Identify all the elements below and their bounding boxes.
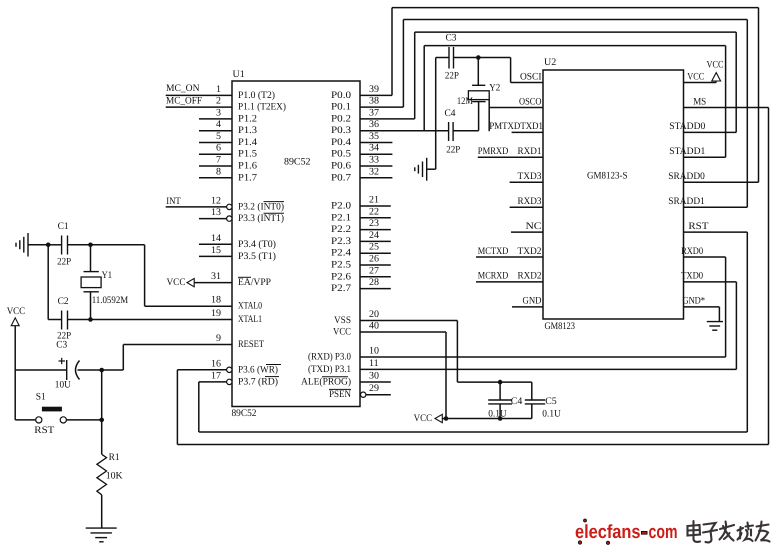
svg-text:TXD0: TXD0 — [681, 271, 703, 282]
svg-text:P0.0: P0.0 — [331, 90, 351, 101]
U1 pin 2 P1.1 (T2EX) — [166, 96, 286, 113]
U1 pin 7 P1.6 — [199, 155, 257, 172]
U2 pin RST — [684, 221, 748, 232]
U1 pin 6 P1.5 — [199, 143, 257, 160]
U1 pin 33 P0.6 — [331, 155, 392, 172]
U1 pin 10 (RXD) P3.0 — [308, 346, 379, 363]
svg-text:Y1: Y1 — [102, 270, 113, 281]
svg-text:38: 38 — [369, 96, 379, 107]
svg-text:GND: GND — [523, 296, 542, 307]
svg-text:P2.7: P2.7 — [331, 283, 351, 294]
VCC symbol at EA/VPP pin 31 — [167, 277, 195, 288]
svg-text:P2.6: P2.6 — [331, 271, 351, 282]
capacitor C4 22P (left of Y2) — [445, 108, 479, 156]
svg-text:TXD3: TXD3 — [518, 171, 542, 182]
svg-text:P0.3: P0.3 — [331, 125, 351, 136]
svg-text:12: 12 — [211, 195, 221, 206]
svg-text:VCC: VCC — [687, 71, 704, 82]
VCC symbol (reset circuit) — [7, 306, 26, 326]
svg-text:PMRXD: PMRXD — [478, 146, 509, 157]
U2 pin NC — [511, 221, 543, 232]
svg-text:ALE(PROG): ALE(PROG) — [301, 377, 351, 388]
logo elecfans.com — [575, 519, 678, 544]
wire OSCI net — [478, 58, 543, 83]
svg-text:89C52: 89C52 — [284, 157, 311, 168]
wire VSS net to cap rail — [360, 321, 532, 383]
U1 pin 26 P2.5 — [331, 254, 391, 271]
svg-text:C2: C2 — [58, 296, 69, 307]
crystal Y2 12M — [457, 58, 500, 132]
net label MC_ON — [166, 83, 200, 94]
U1 pin 19 XTAL1 — [211, 308, 262, 325]
U1 pin 5 P1.4 — [199, 131, 257, 148]
svg-text:PSEN: PSEN — [329, 389, 351, 400]
net label INT — [166, 196, 181, 207]
svg-text:10K: 10K — [106, 471, 124, 482]
svg-text:RST: RST — [688, 221, 708, 232]
svg-text:9: 9 — [216, 333, 221, 344]
svg-text:C4: C4 — [445, 108, 456, 119]
U2 pin PMRXD RXD1 — [478, 146, 543, 157]
svg-text:P1.6: P1.6 — [238, 161, 257, 172]
svg-text:1: 1 — [216, 84, 221, 95]
node OSCI junction — [476, 55, 481, 60]
svg-text:25: 25 — [369, 242, 379, 253]
svg-text:TXD2: TXD2 — [518, 246, 542, 257]
svg-text:23: 23 — [369, 218, 379, 229]
U2 pin OSCO — [489, 96, 543, 107]
svg-text:22: 22 — [369, 206, 379, 217]
U2 pin MCRXD RXD2 — [476, 271, 543, 282]
wire net P0.0 to SRADD0 — [392, 8, 759, 183]
svg-text:Y2: Y2 — [489, 83, 500, 94]
svg-text:R1: R1 — [109, 452, 120, 463]
U1 pin 35 P0.4 — [331, 131, 392, 148]
svg-text:16: 16 — [211, 358, 221, 369]
svg-text:31: 31 — [211, 271, 221, 282]
node VCC rail junction 2 — [498, 416, 503, 421]
node C1/C2 left junction — [46, 243, 51, 248]
svg-text:10: 10 — [369, 346, 379, 357]
capacitor C1 22P — [48, 221, 90, 268]
svg-text:P2.0: P2.0 — [331, 201, 351, 212]
svg-text:C5: C5 — [545, 396, 557, 407]
node VCC rail junction 1 — [444, 416, 449, 421]
wire net P0.1 to SRADD1 — [403, 20, 747, 208]
svg-text:P3.2 (INT0): P3.2 (INT0) — [238, 201, 284, 212]
capacitor C5 0.1U — [525, 382, 562, 419]
U2 pin PMTXDTXD1 — [489, 121, 543, 132]
svg-text:U2: U2 — [544, 57, 556, 68]
svg-text:P0.4: P0.4 — [331, 137, 351, 148]
svg-text:MC_ON: MC_ON — [166, 83, 200, 94]
svg-text:P3.3 (INT1): P3.3 (INT1) — [238, 213, 284, 224]
svg-text:RXD2: RXD2 — [518, 271, 542, 282]
U1 pin 31 EA/VPP — [194, 271, 271, 288]
svg-text:21: 21 — [369, 195, 379, 206]
wire net MS to P3.6 — [177, 108, 768, 445]
U1 pin 37 P0.2 — [331, 107, 415, 124]
U1 pin 25 P2.4 — [331, 242, 391, 259]
wire ground to C3/C4 — [435, 58, 437, 170]
wire net P0.2 to STADD0 — [415, 32, 737, 132]
node C1/Y1 junction — [88, 243, 93, 248]
svg-text:MCRXD: MCRXD — [478, 271, 509, 282]
wire net TXD0 to P3.1 — [360, 282, 736, 370]
svg-text:OSCO: OSCO — [519, 96, 542, 107]
U2 pin TXD0 — [681, 271, 736, 282]
capacitor C4 0.1U — [488, 382, 522, 419]
capacitor C2 22P — [48, 296, 90, 341]
svg-text:32: 32 — [369, 166, 379, 177]
wire R1 to ground — [101, 495, 103, 528]
svg-text:P1.0 (T2): P1.0 (T2) — [238, 90, 275, 101]
U1 pin 14 P3.4 (T0) — [199, 233, 276, 250]
wire junctions vertical — [101, 370, 103, 454]
svg-text:28: 28 — [369, 277, 379, 288]
U2 pin STADD1 — [669, 146, 725, 157]
svg-text:19: 19 — [211, 308, 221, 319]
VCC symbol at U2 VCC pin — [707, 60, 724, 83]
node Y1/XTAL1 junction — [88, 317, 93, 322]
switch S1 — [34, 392, 101, 436]
ground symbol (earth, left-pointing) for C1/C2 — [16, 233, 48, 257]
svg-text:13: 13 — [211, 207, 221, 218]
U1 pin 36 P0.3 — [331, 119, 379, 136]
U2 pin VCC — [684, 71, 717, 82]
svg-text:GM8123: GM8123 — [545, 321, 576, 332]
svg-text:P1.4: P1.4 — [238, 137, 257, 148]
wire VCC rail bottom — [442, 418, 532, 420]
U1 pin 16 P3.6 (WR) — [211, 358, 281, 375]
svg-text:INT: INT — [166, 196, 181, 207]
node S1/R1 junction — [99, 418, 104, 423]
svg-text:P0.6: P0.6 — [331, 161, 351, 172]
U1 pin 13 P3.3 (INT1) — [199, 207, 284, 224]
U2 pin TXD3 — [510, 171, 543, 182]
U1 pin 17 P3.7 (RD) — [211, 370, 279, 387]
svg-text:RST: RST — [34, 425, 54, 436]
node reset junction — [99, 368, 104, 373]
wire GND* to ground — [718, 307, 720, 322]
svg-text:MCTXD: MCTXD — [478, 246, 509, 257]
svg-text:VCC: VCC — [414, 413, 433, 424]
VCC symbol (decoupling rail) — [414, 413, 443, 424]
svg-text:P0.2: P0.2 — [331, 113, 351, 124]
svg-text:22P: 22P — [57, 257, 71, 268]
svg-text:RXD0: RXD0 — [681, 246, 703, 257]
svg-text:P1.7: P1.7 — [238, 172, 257, 183]
U1 pin 3 P1.2 — [199, 107, 257, 124]
svg-text:(RXD) P3.0: (RXD) P3.0 — [308, 352, 351, 363]
U1 pin 29 PSEN — [329, 383, 391, 400]
svg-text:39: 39 — [369, 84, 379, 95]
wire VCC pin40 net — [360, 332, 446, 419]
svg-text:P1.5: P1.5 — [238, 149, 257, 160]
svg-text:5: 5 — [216, 131, 221, 142]
U1 pin 23 P2.2 — [331, 218, 391, 235]
svg-text:37: 37 — [369, 107, 379, 118]
IC U2 GM8123-S body — [543, 57, 684, 332]
svg-text:EA/VPP: EA/VPP — [238, 277, 271, 288]
wire XTAL1 row — [91, 319, 233, 321]
svg-text:27: 27 — [369, 265, 379, 276]
svg-text:GND*: GND* — [683, 296, 706, 307]
svg-text:3: 3 — [216, 107, 221, 118]
wire RESET net to U1 pin 9 — [102, 345, 232, 371]
IC U1 89C52 body — [232, 69, 361, 419]
wire C1 row to XTAL0 — [91, 245, 233, 306]
svg-text:NC: NC — [526, 221, 542, 232]
U1 pin 15 P3.5 (T1) — [199, 245, 276, 262]
svg-text:GM8123-S: GM8123-S — [587, 171, 628, 182]
svg-text:11: 11 — [369, 358, 379, 369]
svg-text:P3.7 (RD): P3.7 (RD) — [238, 376, 278, 387]
svg-text:P2.1: P2.1 — [331, 212, 351, 223]
svg-text:XTAL0: XTAL0 — [238, 301, 262, 312]
net label MC_OFF — [166, 95, 202, 106]
U2 pin STADD0 — [669, 121, 736, 132]
U1 pin 34 P0.5 — [331, 143, 392, 160]
svg-text:(TXD) P3.1: (TXD) P3.1 — [308, 364, 351, 375]
wire net RXD0 to P3.0 — [360, 257, 726, 357]
svg-text:11.0592M: 11.0592M — [92, 295, 129, 306]
svg-text:RESET: RESET — [238, 339, 264, 350]
U1 pin 11 (TXD) P3.1 — [308, 358, 379, 375]
U1 pin 8 P1.7 — [199, 166, 257, 183]
svg-text:SRADD1: SRADD1 — [668, 196, 705, 207]
svg-text:P2.3: P2.3 — [331, 236, 351, 247]
svg-text:6: 6 — [216, 143, 221, 154]
ground symbol (earth, left-pointing) for C3/C4 — [415, 158, 436, 181]
U1 pin 38 P0.1 — [331, 96, 403, 113]
U1 pin 32 P0.7 — [331, 166, 392, 183]
svg-text:P0.7: P0.7 — [331, 172, 351, 183]
svg-text:P2.5: P2.5 — [331, 260, 351, 271]
svg-text:P2.2: P2.2 — [331, 224, 351, 235]
svg-text:C3: C3 — [446, 33, 457, 44]
svg-text:0.1U: 0.1U — [488, 408, 507, 419]
svg-text:P3.4 (T0): P3.4 (T0) — [238, 239, 276, 250]
U2 pin MS — [684, 96, 769, 107]
svg-text:P3.6 (WR): P3.6 (WR) — [238, 364, 278, 375]
logo Chinese characters — [688, 521, 770, 542]
wire net RST to P3.7 — [199, 232, 748, 432]
U2 pin SRADD1 — [668, 196, 747, 207]
svg-text:20: 20 — [369, 309, 379, 320]
svg-text:7: 7 — [216, 155, 221, 166]
svg-text:33: 33 — [369, 155, 379, 166]
node cap top junction — [498, 380, 503, 385]
U1 pin 28 P2.7 — [331, 277, 391, 294]
svg-text:22P: 22P — [445, 71, 459, 82]
svg-text:VCC: VCC — [333, 327, 351, 338]
svg-text:PMTXDTXD1: PMTXDTXD1 — [489, 121, 543, 132]
svg-text:P0.5: P0.5 — [331, 149, 351, 160]
svg-text:12M: 12M — [457, 96, 473, 107]
svg-text:RXD1: RXD1 — [518, 146, 542, 157]
U1 pin 20 VSS — [334, 309, 379, 326]
U1 pin 39 P0.0 — [331, 84, 392, 101]
svg-text:VCC: VCC — [7, 306, 26, 317]
svg-text:VSS: VSS — [334, 315, 351, 326]
wire VCC vertical to S1 — [15, 326, 36, 420]
svg-text:com: com — [649, 522, 678, 543]
ground symbol (R1) — [86, 528, 117, 542]
capacitor C3 22P (top) — [436, 33, 479, 82]
svg-text:P1.1 (T2EX): P1.1 (T2EX) — [238, 102, 286, 113]
svg-text:34: 34 — [369, 143, 379, 154]
svg-text:24: 24 — [369, 230, 379, 241]
U2 pin SRADD0 — [668, 171, 758, 182]
svg-text:15: 15 — [211, 245, 221, 256]
U2 pin GND* — [683, 296, 720, 307]
svg-text:U1: U1 — [233, 69, 245, 80]
svg-text:22P: 22P — [446, 145, 460, 156]
svg-text:C1: C1 — [58, 221, 69, 232]
crystal Y1 11.0592M — [81, 245, 128, 320]
svg-text:P2.4: P2.4 — [331, 248, 351, 259]
svg-text:10U: 10U — [55, 380, 72, 391]
U1 pin 22 P2.1 — [331, 206, 391, 223]
svg-text:MC_OFF: MC_OFF — [166, 95, 202, 106]
svg-text:8: 8 — [216, 166, 221, 177]
capacitor C3 10U electrolytic — [15, 339, 102, 390]
svg-text:MS: MS — [693, 96, 706, 107]
svg-text:SRADD0: SRADD0 — [668, 171, 705, 182]
svg-text:C4: C4 — [511, 396, 523, 407]
svg-text:2: 2 — [216, 96, 221, 107]
svg-text:OSCI: OSCI — [520, 71, 542, 82]
U1 pin 12 P3.2 (INT0) — [166, 195, 284, 212]
U2 pin MCTXD TXD2 — [476, 246, 543, 257]
U1 pin 9 RESET — [216, 333, 264, 350]
svg-text:P1.3: P1.3 — [238, 125, 257, 136]
U1 pin 18 XTAL0 — [211, 295, 262, 312]
svg-text:STADD0: STADD0 — [669, 121, 705, 132]
U1 pin 4 P1.3 — [199, 119, 257, 136]
U2 pin OSCI — [520, 71, 542, 82]
U2 pin GND — [512, 296, 543, 307]
wire net P0.3 to STADD1 — [360, 46, 726, 158]
svg-text:P1.2: P1.2 — [238, 113, 257, 124]
svg-text:4: 4 — [216, 119, 221, 130]
svg-text:35: 35 — [369, 131, 379, 142]
resistor R1 10K — [97, 452, 124, 495]
ground symbol (U2 GND*) — [707, 322, 723, 331]
svg-text:C3: C3 — [56, 339, 67, 350]
U2 pin RXD0 — [681, 246, 726, 257]
svg-text:elecfans: elecfans — [575, 522, 641, 543]
svg-text:XTAL1: XTAL1 — [238, 314, 262, 325]
U1 pin 1 P1.0 (T2) — [166, 84, 275, 101]
U1 pin 27 P2.6 — [331, 265, 391, 282]
svg-text:VCC: VCC — [167, 277, 186, 288]
svg-text:89C52: 89C52 — [232, 408, 257, 419]
svg-text:40: 40 — [369, 321, 379, 332]
wire C1 to C2 vertical — [47, 245, 49, 320]
U1 pin 24 P2.3 — [331, 230, 391, 247]
svg-text:S1: S1 — [36, 392, 46, 403]
U1 pin 30 ALE(PROG) — [301, 371, 391, 388]
svg-text:17: 17 — [211, 370, 221, 381]
svg-text:P0.1: P0.1 — [331, 102, 351, 113]
svg-text:14: 14 — [211, 233, 221, 244]
svg-text:RXD3: RXD3 — [518, 196, 542, 207]
svg-text:STADD1: STADD1 — [669, 146, 705, 157]
svg-text:26: 26 — [369, 254, 379, 265]
U2 pin RXD3 — [510, 196, 543, 207]
U1 pin 21 P2.0 — [331, 195, 391, 212]
svg-text:VCC: VCC — [707, 60, 724, 71]
svg-text:36: 36 — [369, 119, 379, 130]
svg-text:0.1U: 0.1U — [542, 408, 561, 419]
svg-text:30: 30 — [369, 371, 379, 382]
svg-text:P3.5 (T1): P3.5 (T1) — [238, 251, 276, 262]
svg-text:18: 18 — [211, 295, 221, 306]
U1 pin 40 VCC — [333, 321, 379, 338]
svg-text:29: 29 — [369, 383, 379, 394]
